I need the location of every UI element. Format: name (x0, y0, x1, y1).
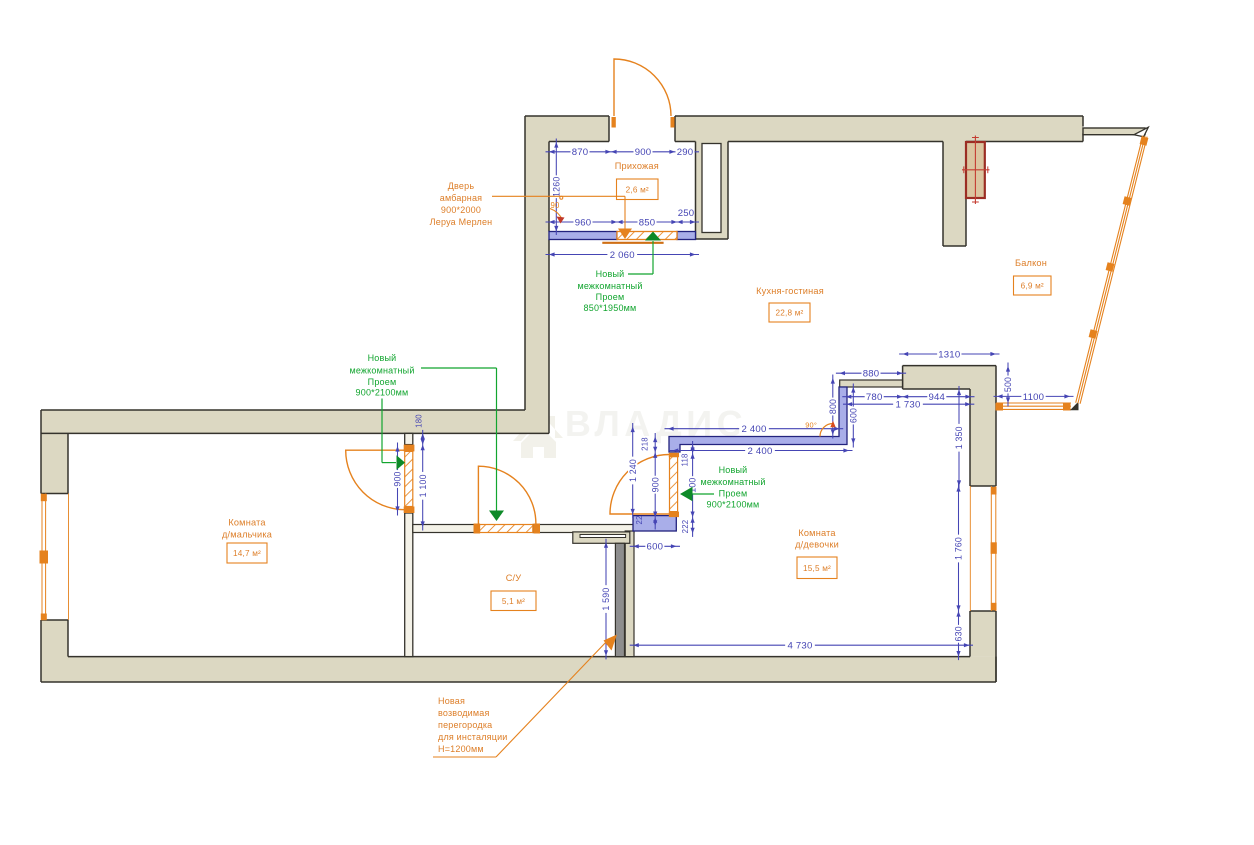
note: 850 opening leader+arrow (628, 232, 661, 275)
svg-text:630: 630 (954, 626, 964, 641)
svg-text:1 100: 1 100 (418, 474, 428, 497)
label Прихожая (615, 161, 659, 171)
svg-text:870: 870 (572, 147, 589, 158)
svg-text:850*1950мм: 850*1950мм (584, 303, 637, 313)
svg-text:Прихожая: Прихожая (615, 161, 659, 171)
boys opening jamb bottom (404, 507, 415, 514)
watermark text ВЛАДИС (565, 403, 747, 444)
bathroom door leaf+arc (478, 466, 536, 524)
svg-text:600: 600 (647, 542, 664, 553)
svg-text:1 590: 1 590 (601, 588, 611, 611)
note: barn door text (430, 181, 493, 227)
dim 1260 (hall left) (551, 139, 561, 236)
new wall: hallway right segment (677, 232, 696, 240)
defs / hatch pattern (0, 0, 1, 1)
girls room door leaf+arc (610, 455, 670, 515)
svg-text:90°: 90° (805, 421, 817, 430)
svg-text:1310: 1310 (938, 349, 960, 360)
svg-text:Балкон: Балкон (1015, 258, 1047, 268)
label Балкон (1015, 258, 1047, 268)
note: new partition leader (433, 635, 617, 758)
area box 6,9 (1014, 276, 1052, 295)
dim 1100 (balcony) (994, 392, 1074, 403)
dim 4730 (girls width) (630, 641, 973, 652)
boys opening jamb top (404, 445, 415, 452)
balcony top corner triangle (1134, 127, 1148, 137)
svg-text:944: 944 (928, 392, 945, 403)
wall: girls room top L-wall (903, 366, 996, 389)
entrance jamb right (671, 117, 675, 128)
girls 90 deg mark (805, 421, 835, 437)
bathroom ledge slot (580, 535, 626, 538)
svg-text:для инсталяции: для инсталяции (438, 732, 508, 742)
bathroom jamb right (534, 524, 541, 534)
svg-text:Леруа Мерлен: Леруа Мерлен (430, 217, 493, 227)
dim 600 (girls door offset) (630, 542, 680, 553)
dim 630 (954, 608, 964, 661)
watermark house logo (513, 412, 563, 458)
dim 1590 (gray partition) (601, 539, 611, 660)
new wall: girls room bottom elbow (633, 516, 676, 531)
dim 2400 lower (669, 446, 852, 457)
svg-text:2,6 м²: 2,6 м² (626, 185, 649, 194)
dim 600 (kitchen edge) (848, 384, 858, 448)
dim 2400 upper (665, 424, 844, 435)
wall: kitchen partial wall (943, 142, 966, 247)
label Комната д/девочки (795, 528, 839, 550)
wall: girls room right below window (970, 611, 996, 657)
note: new opening 900x2100 left text (349, 353, 414, 398)
partition: boys room wall upper piece (405, 433, 413, 444)
dim 960/850 (hall bottom) (546, 217, 700, 228)
svg-text:1 350: 1 350 (954, 426, 964, 449)
partition: bathroom right wall (625, 531, 634, 657)
dim 870/900/290 (hall top) (546, 147, 700, 158)
svg-text:880: 880 (863, 369, 880, 380)
svg-text:290: 290 (677, 147, 694, 158)
svg-text:Новый: Новый (368, 353, 397, 363)
svg-text:4 730: 4 730 (787, 641, 812, 652)
svg-text:Комната: Комната (228, 518, 266, 528)
svg-text:5,1 м²: 5,1 м² (502, 597, 525, 606)
svg-text:900: 900 (393, 471, 403, 486)
wall: lower-section top band (41, 410, 549, 433)
dim 500 (balcony) (1003, 363, 1013, 407)
svg-text:900*2100мм: 900*2100мм (707, 500, 760, 510)
bathroom jamb left (474, 524, 481, 534)
wall: thin 880 wall (840, 380, 903, 387)
opening: hallway barn door hatch (617, 232, 677, 240)
hall 90 swing mark (550, 196, 565, 223)
label Комната д/мальчика (222, 518, 273, 540)
svg-text:амбарная: амбарная (440, 193, 483, 203)
svg-text:15,5 м²: 15,5 м² (803, 564, 831, 573)
svg-text:Кухня-гостиная: Кухня-гостиная (756, 286, 824, 296)
girls jamb bottom (669, 512, 679, 517)
boys room door leaf+arc (346, 450, 405, 510)
svg-text:Новый: Новый (596, 269, 625, 279)
note: girls opening leader (680, 487, 714, 501)
label Кухня-гостиная (756, 286, 824, 296)
note: new partition text (438, 696, 508, 754)
dim 180/1100 (boys side) (415, 414, 428, 531)
barn door leaf line (602, 242, 663, 244)
svg-text:250: 250 (678, 208, 695, 219)
svg-text:д/девочки: д/девочки (795, 540, 839, 550)
balcony glazing horizontal (996, 403, 1072, 411)
note: left opening leader right (382, 399, 405, 470)
svg-text:1 730: 1 730 (895, 400, 920, 411)
vent cross lines (962, 136, 990, 205)
svg-text:600: 600 (848, 408, 858, 423)
wall: left exterior below window (41, 620, 68, 682)
wall: bottom exterior (41, 657, 996, 682)
dim 1310 (girls top) (899, 349, 999, 360)
svg-text:перегородка: перегородка (438, 720, 492, 730)
dim 780/944 (842, 392, 974, 403)
shaft inner slot (702, 144, 721, 233)
svg-text:800: 800 (828, 399, 838, 414)
opening: boys room hatch (405, 451, 413, 506)
partition: bathroom top wall right piece (533, 525, 634, 533)
label С/У (506, 573, 522, 583)
window: girls room (right wall) (970, 486, 997, 611)
wall: hallway left exterior (525, 116, 549, 433)
wall: left exterior above window (41, 410, 68, 494)
note: new opening 850x1950 text (577, 269, 642, 313)
note: left opening leader down (421, 368, 504, 521)
svg-text:900: 900 (650, 477, 660, 492)
svg-text:960: 960 (575, 217, 592, 228)
svg-text:22: 22 (635, 515, 644, 524)
new wall: girls room top (2400) (669, 387, 847, 452)
dim 1350 (954, 386, 964, 490)
svg-text:межкомнатный: межкомнатный (577, 281, 642, 291)
dim 800 (828, 375, 838, 439)
svg-text:780: 780 (866, 392, 883, 403)
svg-text:2 060: 2 060 (610, 250, 635, 261)
svg-text:900*2000: 900*2000 (441, 205, 481, 215)
svg-text:850: 850 (639, 217, 656, 228)
balcony glazing slanted (1076, 136, 1149, 404)
opening: bathroom door hatch (480, 525, 533, 533)
dim 250 text (678, 208, 695, 219)
dim 900 (boys door) (393, 443, 403, 516)
balcony top ledge (1083, 128, 1145, 135)
svg-text:222: 222 (681, 520, 690, 534)
svg-text:218: 218 (641, 437, 650, 451)
area box 2,6 (617, 179, 659, 200)
svg-text:Комната: Комната (798, 528, 836, 538)
svg-text:H=1200мм: H=1200мм (438, 744, 484, 754)
note: barn door leader (492, 196, 632, 239)
wall: ventilation shaft block (696, 142, 729, 240)
svg-text:500: 500 (1003, 377, 1013, 392)
svg-text:2 400: 2 400 (741, 424, 766, 435)
svg-text:1260: 1260 (551, 177, 561, 197)
window: boys room (left wall) (40, 494, 69, 621)
area box 15,5 (797, 557, 837, 579)
svg-text:д/мальчика: д/мальчика (222, 530, 273, 540)
bathroom ledge block (573, 532, 630, 543)
dim 880 (836, 369, 906, 380)
svg-text:Новый: Новый (719, 465, 748, 475)
svg-text:1 760: 1 760 (954, 537, 964, 560)
svg-text:Новая: Новая (438, 696, 465, 706)
svg-text:Проем: Проем (368, 377, 397, 387)
wall: top exterior right of entrance door (675, 116, 1083, 142)
wall: girls room right above window (970, 389, 996, 486)
new plumbing partition (gray) (615, 543, 624, 656)
svg-text:Проем: Проем (719, 489, 748, 499)
svg-text:900*2100мм: 900*2100мм (356, 388, 409, 398)
dim 2060 (hall width) (546, 250, 700, 261)
area box 14,7 (227, 543, 267, 563)
girls jamb top (669, 453, 679, 457)
entrance door leaf+arc (614, 59, 671, 116)
svg-text:С/У: С/У (506, 573, 522, 583)
svg-text:118: 118 (681, 453, 690, 466)
vent duct (red) (966, 142, 985, 198)
dim 1760 (954, 483, 964, 615)
new wall: hallway left segment (549, 232, 617, 240)
svg-text:1100: 1100 (1023, 392, 1044, 403)
partition: bathroom top wall left piece (413, 525, 480, 533)
balcony corner post (1070, 402, 1079, 411)
svg-text:Дверь: Дверь (448, 181, 475, 191)
dim 1730 (843, 400, 974, 411)
svg-text:2 400: 2 400 (747, 446, 772, 457)
svg-text:90: 90 (550, 201, 560, 210)
area box 22,8 (769, 303, 810, 322)
wall: top exterior left of entrance door (525, 116, 609, 142)
dim 118/100/222 (681, 441, 698, 537)
svg-text:межкомнатный: межкомнатный (700, 477, 765, 487)
partition: boys room wall lower piece (405, 513, 413, 657)
svg-text:14,7 м²: 14,7 м² (233, 549, 261, 558)
svg-text:6,9 м²: 6,9 м² (1021, 282, 1044, 291)
svg-text:возводимая: возводимая (438, 708, 490, 718)
opening: girls room hatch (670, 457, 678, 512)
note: new opening 900x2100 girls text (700, 465, 765, 510)
svg-text:1 240: 1 240 (628, 459, 638, 482)
wall outlines (dark edges) (41, 116, 1083, 682)
svg-text:межкомнатный: межкомнатный (349, 366, 414, 376)
dim 1240 (628, 423, 638, 518)
svg-text:900: 900 (635, 147, 652, 158)
entrance jamb left (612, 117, 616, 128)
area box 5,1 (491, 591, 536, 611)
svg-text:Проем: Проем (596, 292, 625, 302)
svg-text:22,8 м²: 22,8 м² (776, 309, 804, 318)
svg-text:180: 180 (415, 414, 424, 428)
dim 218/900/22 (635, 433, 660, 530)
